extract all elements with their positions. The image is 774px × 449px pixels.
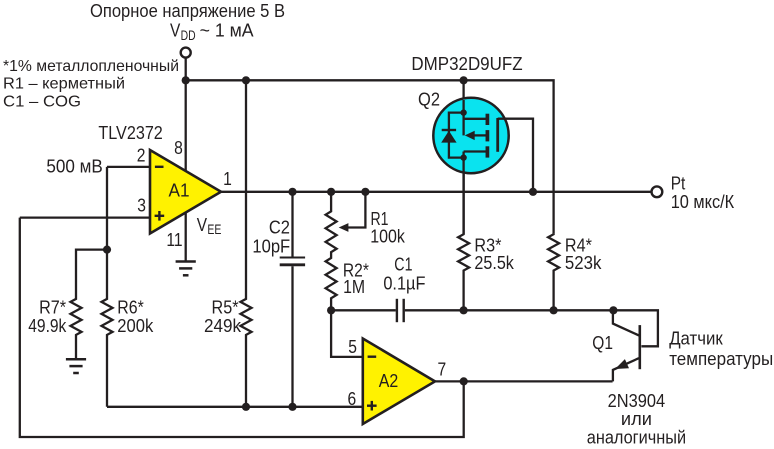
svg-text:5: 5 [348,337,357,357]
svg-text:R1 – керметный: R1 – керметный [3,76,125,93]
svg-text:25.5k: 25.5k [474,253,514,273]
svg-text:523k: 523k [565,253,602,273]
svg-text:7: 7 [437,360,446,380]
svg-text:V: V [170,21,180,41]
svg-text:10 мкс/К: 10 мкс/К [671,192,735,212]
svg-text:DMP32D9UFZ: DMP32D9UFZ [411,54,522,74]
svg-text:аналогичный: аналогичный [587,427,686,447]
svg-text:или: или [621,409,652,429]
svg-text:500 мВ: 500 мВ [46,156,102,176]
svg-text:Q2: Q2 [418,90,440,110]
svg-text:1M: 1M [343,277,365,297]
svg-text:2: 2 [137,146,146,166]
svg-text:6: 6 [348,389,357,409]
svg-text:C2: C2 [269,217,290,237]
svg-text:R5*: R5* [212,298,239,318]
svg-text:A1: A1 [169,181,190,201]
svg-text:A2: A2 [379,371,399,391]
svg-text:49.9k: 49.9k [28,316,67,336]
svg-text:Опорное напряжение 5 В: Опорное напряжение 5 В [90,1,285,21]
svg-text:11: 11 [166,230,182,250]
svg-text:Pt: Pt [671,173,686,193]
svg-text:температуры: температуры [669,349,773,369]
svg-text:0.1µF: 0.1µF [383,273,425,293]
svg-text:1: 1 [223,169,232,189]
svg-text:TLV2372: TLV2372 [98,123,162,143]
svg-text:DD: DD [181,28,196,43]
svg-text:Датчик: Датчик [669,328,723,348]
svg-text:249k: 249k [204,316,242,336]
svg-text:*1% металлопленочный: *1% металлопленочный [3,58,179,75]
svg-text:R6*: R6* [117,298,144,318]
svg-text:V: V [197,215,207,235]
svg-text:2N3904: 2N3904 [608,391,666,411]
svg-text:~ 1 мА: ~ 1 мА [200,21,254,41]
svg-text:Q1: Q1 [592,333,613,353]
svg-text:EE: EE [207,222,221,237]
svg-text:C1: C1 [394,254,412,274]
svg-text:8: 8 [174,138,183,158]
svg-text:3: 3 [137,195,146,215]
svg-text:10pF: 10pF [252,237,290,257]
svg-text:R7*: R7* [39,298,66,318]
svg-text:C1 – COG: C1 – COG [3,93,81,110]
svg-text:200k: 200k [117,316,154,336]
svg-text:100k: 100k [370,226,405,246]
